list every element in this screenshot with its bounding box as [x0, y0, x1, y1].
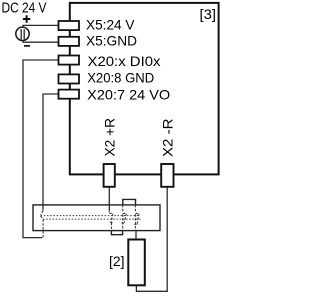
svg-text:X20:8 GND: X20:8 GND: [87, 70, 154, 86]
svg-text:X5:24 V: X5:24 V: [86, 16, 135, 32]
svg-text:X2 -R: X2 -R: [160, 119, 176, 158]
svg-text:X20:7 24 VO: X20:7 24 VO: [87, 87, 170, 103]
svg-text:DC 24 V: DC 24 V: [2, 1, 47, 17]
svg-text:[2]: [2]: [109, 253, 125, 269]
svg-text:[3]: [3]: [200, 6, 217, 22]
svg-text:X5:GND: X5:GND: [86, 33, 137, 49]
svg-text:X20:x DI0x: X20:x DI0x: [88, 53, 161, 69]
svg-text:X2 +R: X2 +R: [101, 118, 117, 157]
